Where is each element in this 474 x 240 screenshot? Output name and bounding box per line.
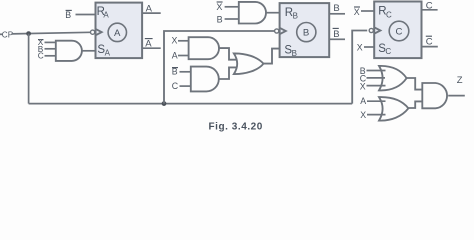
flip-flop A clock wedge	[96, 29, 102, 35]
node B input label (gate G5)	[217, 14, 223, 24]
wire G4 out to SB	[264, 49, 280, 64]
node B-bar input label (to RA)	[65, 10, 72, 20]
wire C to G3	[180, 85, 192, 87]
OR gate G4	[234, 53, 264, 74]
pin SA label	[97, 44, 110, 57]
wire B-bar to G3	[180, 71, 192, 73]
svg-text:X: X	[216, 2, 222, 12]
node B-bar input label (gate G3)	[172, 67, 178, 77]
svg-text:Fig. 3.4.20: Fig. 3.4.20	[209, 122, 263, 133]
junction on CP wire	[26, 31, 31, 36]
node A input label (gate G7)	[360, 96, 366, 106]
wire Z output	[448, 95, 465, 97]
svg-text:Z: Z	[457, 75, 463, 86]
node B input label (gate G1)	[38, 44, 44, 54]
wire B to G1	[45, 48, 57, 50]
wire G5 out to RB	[266, 12, 280, 14]
flip-flop C clock bubble	[369, 28, 373, 32]
wire X to G2	[178, 40, 189, 42]
svg-text:CP: CP	[2, 31, 14, 40]
svg-text:A: A	[360, 96, 366, 106]
node CP label	[0, 31, 14, 40]
svg-text:B: B	[65, 10, 71, 20]
svg-text:A: A	[105, 49, 111, 58]
wire C to G1	[45, 55, 57, 57]
node A output label	[146, 3, 153, 14]
wire X-bar to RC	[361, 10, 374, 12]
wire CP riser down to clock bus	[28, 34, 30, 104]
wire C to G6	[367, 77, 386, 79]
wire X to G6	[367, 85, 386, 87]
wire B output	[329, 13, 345, 15]
node X input label (gate G7)	[360, 110, 366, 120]
svg-text:B: B	[293, 11, 298, 20]
pin SC label	[378, 43, 391, 56]
node X-bar input label (to RC)	[354, 7, 360, 17]
AND gate G8 (output Z)	[422, 83, 447, 108]
AND gate G1 (X-bar,B,C -> SA)	[56, 41, 82, 61]
node A input label (gate G2)	[172, 50, 178, 60]
wire G1 out to SA	[82, 50, 96, 52]
node Z output label	[457, 75, 463, 86]
wire X-bar to G5	[225, 6, 239, 8]
wire CP to FF A clock	[12, 32, 91, 34]
flip-flop A clock bubble	[91, 30, 95, 34]
flip-flop B box	[280, 3, 330, 57]
svg-text:B: B	[333, 3, 339, 14]
wire G3 out to OR G4	[219, 67, 237, 79]
node X-bar input label (gate G5)	[216, 2, 222, 12]
node B-bar output label	[333, 28, 340, 40]
svg-text:B: B	[292, 49, 297, 58]
wire G6 out to G8	[407, 78, 423, 90]
AND gate G2 (X,A)	[189, 37, 219, 59]
wire B-bar output	[329, 38, 345, 40]
svg-text:A: A	[103, 11, 109, 20]
wire X-bar to G1	[45, 41, 57, 43]
node C input label (gate G6)	[360, 73, 367, 83]
flip-flop B clock bubble	[275, 29, 279, 33]
pin RC label	[378, 6, 392, 20]
wire A output	[142, 12, 161, 14]
svg-text:B: B	[303, 28, 309, 39]
OR gate G6 (B,C,X)	[379, 66, 407, 91]
wire C-bar output	[422, 46, 438, 48]
caption Fig. 3.4.20	[209, 122, 263, 133]
svg-text:X: X	[357, 43, 363, 53]
svg-text:X: X	[360, 110, 366, 120]
node A-bar output label	[145, 39, 153, 50]
wire C output	[422, 9, 438, 11]
node B input label (gate G6)	[360, 66, 366, 76]
flip-flop C clock wedge	[374, 27, 380, 33]
node C-bar output label	[426, 36, 433, 47]
node C input label (gate G3)	[172, 81, 179, 91]
svg-text:C: C	[385, 47, 391, 56]
svg-text:B: B	[333, 29, 339, 40]
pin RA label	[97, 6, 110, 20]
wire G7 out to G8	[408, 101, 422, 108]
wire B to G6	[367, 70, 386, 72]
node X input label (to SC)	[357, 43, 363, 53]
svg-text:A: A	[172, 50, 178, 60]
wire X to G7	[367, 114, 386, 116]
wire B to G5	[225, 18, 239, 20]
wire G2 out to OR G4	[219, 48, 236, 60]
svg-text:X: X	[172, 36, 178, 46]
pin SB label	[284, 45, 297, 58]
AND gate G5 (X-bar,B -> RB)	[239, 2, 266, 24]
flip-flop A box	[96, 3, 143, 59]
pin RB label	[285, 7, 298, 20]
node X input label (gate G6)	[360, 81, 366, 91]
flip-flop C box	[374, 2, 421, 59]
flip-flop B clock wedge	[280, 28, 286, 34]
svg-text:A: A	[114, 28, 121, 39]
flip-flop B state circle	[297, 22, 316, 41]
svg-text:C: C	[172, 81, 179, 91]
node X input label (gate G2)	[172, 36, 178, 46]
AND gate G3 (B-bar,C)	[191, 67, 219, 92]
wire A-bar output	[142, 47, 161, 49]
wire B-bar to RA	[76, 14, 96, 16]
node C input label (gate G1)	[38, 51, 44, 61]
flip-flop A state circle	[108, 23, 126, 41]
wire clock bus	[29, 103, 353, 105]
svg-text:C: C	[386, 10, 392, 19]
node X-bar input label (gate G1)	[38, 37, 44, 47]
svg-text:B: B	[217, 14, 223, 24]
wire A to G7	[367, 100, 386, 102]
wire clock riser to FF B	[164, 31, 275, 104]
wire A to G2	[178, 55, 189, 57]
wire clock riser to FF C	[352, 31, 367, 104]
wire X to SC	[364, 46, 374, 48]
OR gate G7 (A,X)	[379, 97, 408, 121]
svg-text:X: X	[354, 7, 360, 17]
junction on clock bus for FF B	[162, 101, 167, 106]
svg-text:C: C	[38, 51, 44, 61]
svg-text:C: C	[396, 27, 403, 38]
flip-flop C state circle	[389, 21, 409, 41]
svg-text:X: X	[360, 81, 366, 91]
node B output label	[333, 3, 339, 14]
svg-text:B: B	[172, 67, 178, 77]
node C output label	[426, 1, 433, 12]
